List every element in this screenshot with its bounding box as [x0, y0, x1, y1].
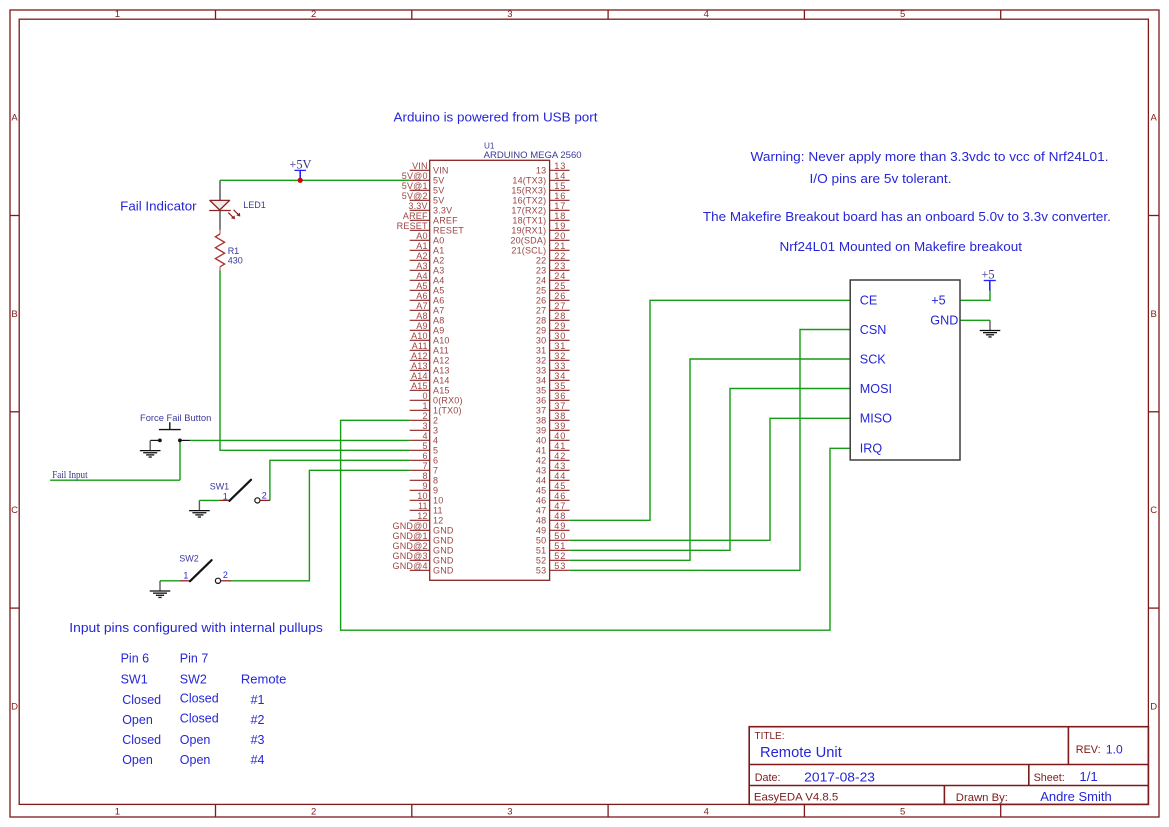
svg-text:20: 20 [554, 231, 566, 241]
U1 pin A9 (left 17) [410, 321, 445, 336]
svg-text:3: 3 [422, 421, 427, 431]
svg-text:The Makefire Breakout board ha: The Makefire Breakout board has an onboa… [703, 210, 1111, 224]
U1 pin 23 (right 11) [536, 261, 570, 276]
svg-text:Input pins configured with int: Input pins configured with internal pull… [69, 621, 322, 635]
svg-text:31: 31 [554, 341, 566, 351]
U1 pin 30 (right 18) [536, 331, 570, 346]
svg-text:+5: +5 [981, 267, 994, 281]
svg-text:A4: A4 [416, 271, 427, 281]
svg-text:25: 25 [536, 286, 546, 296]
svg-text:11: 11 [418, 501, 428, 511]
svg-text:A2: A2 [416, 251, 427, 261]
svg-text:4: 4 [704, 807, 709, 818]
svg-text:Pin 6: Pin 6 [121, 651, 150, 665]
U1 pin 1 (left 25) [410, 401, 462, 416]
svg-text:CE: CE [860, 294, 878, 308]
svg-text:GND: GND [433, 536, 454, 546]
U1 pin 5V@0 (left 2) [402, 171, 445, 186]
svg-text:A15: A15 [433, 386, 450, 396]
U1 pin 50 (right 38) [536, 531, 570, 546]
U1 pin 53 (right 41) [536, 561, 570, 576]
svg-text:32: 32 [554, 351, 566, 361]
U1 pin A4 (left 12) [410, 271, 445, 286]
svg-text:45: 45 [536, 486, 546, 496]
svg-text:Remote: Remote [241, 673, 287, 687]
svg-text:A13: A13 [411, 361, 428, 371]
svg-text:41: 41 [536, 446, 546, 456]
svg-text:B: B [1151, 309, 1157, 320]
svg-text:Fail Indicator: Fail Indicator [120, 200, 196, 214]
U1 pin RESET (left 7) [397, 221, 465, 236]
svg-text:GND: GND [433, 556, 454, 566]
svg-text:48: 48 [536, 516, 546, 526]
svg-text:SCK: SCK [860, 352, 886, 366]
U1 pin GND@3 (left 40) [393, 551, 454, 566]
wire R1 bottom to U1 pin 5 [220, 270, 410, 450]
svg-text:A10: A10 [433, 336, 450, 346]
svg-text:A11: A11 [433, 346, 449, 356]
svg-text:430: 430 [228, 255, 243, 265]
svg-text:36: 36 [554, 391, 566, 401]
U1 pin 36 (right 24) [536, 391, 570, 406]
svg-text:17(RX2): 17(RX2) [511, 206, 546, 216]
svg-text:6: 6 [433, 456, 438, 466]
svg-text:A: A [11, 113, 18, 124]
svg-text:5V: 5V [433, 186, 444, 196]
svg-text:GND: GND [433, 526, 454, 536]
wire SW1 pin2 up to U1 pin 6 [270, 460, 410, 500]
svg-text:53: 53 [536, 566, 546, 576]
svg-text:A13: A13 [433, 366, 450, 376]
U1 pin 0 (left 24) [410, 391, 463, 406]
svg-text:#4: #4 [251, 753, 265, 767]
svg-text:Remote Unit: Remote Unit [760, 745, 842, 761]
svg-text:TITLE:: TITLE: [755, 731, 785, 742]
svg-text:A12: A12 [411, 351, 428, 361]
U1 pin 4 (left 28) [410, 431, 439, 446]
U1 pin 38 (right 26) [536, 411, 570, 426]
svg-text:52: 52 [554, 551, 566, 561]
svg-text:A5: A5 [433, 286, 444, 296]
svg-text:1: 1 [183, 570, 188, 580]
svg-text:28: 28 [554, 311, 566, 321]
U1 pin 47 (right 35) [536, 501, 570, 516]
svg-text:44: 44 [536, 476, 546, 486]
svg-text:IRQ: IRQ [860, 442, 883, 456]
U1 pin 5 (left 29) [410, 441, 439, 456]
svg-text:Date:: Date: [755, 772, 781, 784]
U1 pin 35 (right 23) [536, 381, 570, 396]
svg-text:GND@0: GND@0 [393, 521, 428, 531]
switch SW2 [180, 560, 231, 583]
svg-text:42: 42 [536, 456, 546, 466]
power flag +5V net [289, 157, 311, 180]
ground at SW1 [189, 500, 210, 517]
U1 pin A2 (left 10) [410, 251, 445, 266]
svg-text:35: 35 [554, 381, 566, 391]
svg-text:LED1: LED1 [243, 200, 266, 210]
wire U1 pin 52 to nRF SCK [570, 359, 851, 560]
svg-text:#1: #1 [251, 693, 265, 707]
svg-text:Warning: Never apply more than: Warning: Never apply more than 3.3vdc to… [751, 150, 1109, 164]
svg-text:SW1: SW1 [210, 481, 230, 491]
wire U1 pin 48 to nRF CE [570, 300, 851, 520]
svg-text:32: 32 [536, 356, 546, 366]
U1 pin A6 (left 14) [410, 291, 445, 306]
svg-text:14(TX3): 14(TX3) [512, 176, 546, 186]
svg-text:51: 51 [554, 541, 566, 551]
svg-text:A6: A6 [416, 291, 427, 301]
svg-text:27: 27 [536, 306, 546, 316]
svg-text:26: 26 [536, 296, 546, 306]
wire SW1 pin1 to ground elbow [199, 499, 219, 501]
U1 pin 25 (right 13) [536, 281, 570, 296]
svg-text:A9: A9 [433, 326, 444, 336]
svg-text:C: C [11, 505, 18, 516]
U1 pin 12 (left 36) [410, 511, 444, 526]
svg-text:42: 42 [554, 451, 566, 461]
svg-text:Arduino is powered from USB po: Arduino is powered from USB port [394, 110, 599, 124]
op-amp U1 ARDUINO MEGA 2560 chip body [430, 160, 550, 580]
svg-text:GND: GND [930, 314, 958, 328]
svg-text:AREF: AREF [433, 216, 458, 226]
svg-text:A15: A15 [411, 381, 428, 391]
svg-text:5V@1: 5V@1 [402, 181, 428, 191]
svg-text:6: 6 [422, 451, 427, 461]
wire SW2 pin1 to ground elbow [160, 580, 180, 582]
svg-text:Nrf24L01 Mounted on Makefire b: Nrf24L01 Mounted on Makefire breakout [780, 240, 1023, 254]
svg-text:+5: +5 [931, 294, 945, 308]
svg-text:GND@2: GND@2 [393, 541, 428, 551]
svg-text:ARDUINO MEGA 2560: ARDUINO MEGA 2560 [484, 150, 582, 160]
U1 pin 51 (right 39) [536, 541, 570, 556]
svg-text:31: 31 [536, 346, 546, 356]
svg-text:33: 33 [536, 366, 546, 376]
U1 pin 13 (right 1) [536, 161, 570, 176]
U1 pin GND@0 (left 37) [393, 521, 454, 536]
wire U1 pin 51 to nRF MOSI [570, 389, 851, 551]
wire button junction down to fail input net [179, 440, 181, 480]
svg-text:MOSI: MOSI [860, 382, 892, 396]
U1 pin 5V@1 (left 3) [402, 181, 445, 196]
svg-text:B: B [11, 309, 17, 320]
svg-text:MISO: MISO [860, 412, 892, 426]
svg-text:40: 40 [554, 431, 566, 441]
LED LED1 (fail indicator) [209, 180, 240, 230]
svg-text:GND: GND [433, 566, 454, 576]
svg-text:22: 22 [554, 251, 566, 261]
svg-text:7: 7 [422, 461, 427, 471]
svg-text:14: 14 [554, 171, 566, 181]
U1 pin 32 (right 20) [536, 351, 570, 366]
svg-text:A12: A12 [433, 356, 450, 366]
svg-text:41: 41 [554, 441, 566, 451]
U1 pin 20 (right 8) [510, 231, 569, 246]
svg-text:Andre Smith: Andre Smith [1040, 789, 1112, 804]
svg-text:30: 30 [536, 336, 546, 346]
svg-text:8: 8 [433, 476, 438, 486]
svg-text:4: 4 [422, 431, 427, 441]
ground at SW2 [150, 581, 171, 598]
svg-text:1: 1 [223, 491, 228, 501]
svg-text:A10: A10 [411, 331, 428, 341]
U1 pin 43 (right 31) [536, 461, 570, 476]
svg-text:16(TX2): 16(TX2) [512, 196, 546, 206]
wire nRF +5 pin to +5 flag [960, 290, 990, 300]
svg-text:19: 19 [554, 221, 566, 231]
svg-text:5: 5 [422, 441, 427, 451]
wire +5V rail to U1 5V@0 [220, 179, 410, 181]
svg-text:23: 23 [536, 266, 546, 276]
svg-text:Fail Input: Fail Input [52, 470, 88, 481]
svg-text:5: 5 [433, 446, 438, 456]
svg-text:Pin 7: Pin 7 [180, 651, 209, 665]
svg-text:3.3V: 3.3V [433, 206, 452, 216]
svg-text:50: 50 [536, 536, 546, 546]
svg-text:18(TX1): 18(TX1) [512, 216, 546, 226]
svg-text:2: 2 [433, 416, 438, 426]
junction on +5V rail [298, 178, 303, 183]
svg-text:A7: A7 [416, 301, 427, 311]
svg-text:1(TX0): 1(TX0) [433, 406, 462, 416]
svg-text:A6: A6 [433, 296, 444, 306]
svg-text:A8: A8 [416, 311, 427, 321]
svg-text:39: 39 [554, 421, 566, 431]
svg-text:D: D [11, 702, 18, 713]
U1 pin 48 (right 36) [536, 511, 570, 526]
U1 pin 49 (right 37) [536, 521, 570, 536]
svg-text:34: 34 [554, 371, 566, 381]
svg-text:43: 43 [554, 461, 566, 471]
U1 pin 45 (right 33) [536, 481, 570, 496]
svg-text:Closed: Closed [122, 693, 161, 707]
U1 pin 41 (right 29) [536, 441, 570, 456]
svg-text:34: 34 [536, 376, 546, 386]
U1 pin 8 (left 32) [410, 471, 439, 486]
U1 pin AREF (left 6) [403, 211, 458, 226]
U1 pin A0 (left 8) [410, 231, 445, 246]
push button (force fail) [150, 422, 190, 442]
svg-text:A11: A11 [412, 341, 428, 351]
svg-text:49: 49 [536, 526, 546, 536]
wire nRF GND pin to ground [960, 319, 990, 321]
svg-text:5V: 5V [433, 176, 444, 186]
svg-text:Open: Open [180, 753, 211, 767]
svg-text:9: 9 [433, 486, 438, 496]
U1 pin 44 (right 32) [536, 471, 570, 486]
svg-text:3: 3 [507, 807, 512, 818]
svg-text:49: 49 [554, 521, 566, 531]
U1 pin GND@1 (left 38) [393, 531, 454, 546]
svg-text:GND@4: GND@4 [393, 561, 428, 571]
svg-text:EasyEDA V4.8.5: EasyEDA V4.8.5 [754, 792, 838, 804]
svg-text:5V@2: 5V@2 [402, 191, 428, 201]
svg-text:11: 11 [433, 506, 443, 516]
svg-text:36: 36 [536, 396, 546, 406]
U1 pin 17 (right 5) [511, 201, 569, 216]
U1 pin 28 (right 16) [536, 311, 570, 326]
U1 pin VIN (left 1) [410, 161, 449, 176]
svg-text:REV:: REV: [1076, 744, 1101, 756]
svg-text:39: 39 [536, 426, 546, 436]
svg-text:Open: Open [122, 713, 153, 727]
svg-text:A3: A3 [433, 266, 444, 276]
svg-text:52: 52 [536, 556, 546, 566]
U1 pin 19 (right 7) [511, 221, 569, 236]
ground at nRF GND [980, 320, 1001, 337]
svg-text:CSN: CSN [860, 323, 887, 337]
svg-text:Open: Open [122, 753, 153, 767]
svg-text:0(RX0): 0(RX0) [433, 396, 463, 406]
svg-text:28: 28 [536, 316, 546, 326]
svg-text:5V@0: 5V@0 [402, 171, 428, 181]
svg-text:8: 8 [422, 471, 427, 481]
svg-text:4: 4 [433, 436, 438, 446]
svg-text:A: A [1151, 113, 1158, 124]
svg-text:2: 2 [422, 411, 427, 421]
svg-text:35: 35 [536, 386, 546, 396]
svg-text:3.3V: 3.3V [408, 201, 427, 211]
U1 pin A5 (left 13) [410, 281, 445, 296]
U1 pin 16 (right 4) [512, 191, 569, 206]
svg-text:A7: A7 [433, 306, 444, 316]
svg-text:3: 3 [433, 426, 438, 436]
U1 pin 42 (right 30) [536, 451, 570, 466]
ground at force fail button [140, 440, 161, 457]
svg-text:5V: 5V [433, 196, 444, 206]
svg-text:30: 30 [554, 331, 566, 341]
U1 pin 2 (left 26) [410, 411, 439, 426]
svg-text:43: 43 [536, 466, 546, 476]
svg-text:C: C [1150, 505, 1157, 516]
wire U1 pin 50 to nRF MISO [570, 418, 851, 540]
U1 pin 40 (right 28) [536, 431, 570, 446]
svg-text:22: 22 [536, 256, 546, 266]
svg-text:VIN: VIN [412, 161, 428, 171]
U1 pin 3.3V (left 5) [408, 201, 452, 216]
U1 pin 39 (right 27) [536, 421, 570, 436]
svg-text:13: 13 [554, 161, 566, 171]
svg-text:A8: A8 [433, 316, 444, 326]
svg-text:A9: A9 [416, 321, 427, 331]
U1 pin 10 (left 34) [410, 491, 444, 506]
svg-text:50: 50 [554, 531, 566, 541]
svg-text:38: 38 [554, 411, 566, 421]
svg-text:19(RX1): 19(RX1) [511, 226, 546, 236]
U1 pin A10 (left 18) [410, 331, 450, 346]
wire U1 pin 53 to nRF CSN [570, 330, 851, 571]
svg-text:1.0: 1.0 [1106, 742, 1123, 756]
svg-text:3: 3 [507, 9, 512, 20]
U1 pin 21 (right 9) [511, 241, 569, 256]
wire SW2 pin2 to U1 pin 7 [230, 470, 410, 581]
wire fail input net [50, 479, 180, 481]
U1 pin 46 (right 34) [536, 491, 570, 506]
svg-text:1: 1 [115, 9, 120, 20]
svg-text:23: 23 [554, 261, 566, 271]
svg-text:SW1: SW1 [121, 673, 148, 687]
svg-text:A14: A14 [433, 376, 450, 386]
svg-text:29: 29 [554, 321, 566, 331]
svg-text:0: 0 [422, 391, 427, 401]
svg-text:5: 5 [900, 807, 905, 818]
U1 pin 24 (right 12) [536, 271, 570, 286]
U1 pin A11 (left 19) [410, 341, 449, 356]
title block [749, 727, 1148, 805]
svg-text:Closed: Closed [122, 733, 161, 747]
U1 pin A3 (left 11) [410, 261, 445, 276]
svg-text:SW2: SW2 [179, 554, 199, 564]
svg-text:A14: A14 [411, 371, 428, 381]
svg-text:21: 21 [554, 241, 566, 251]
U1 pin A8 (left 16) [410, 311, 445, 326]
U1 pin A13 (left 21) [410, 361, 450, 376]
svg-text:13: 13 [536, 166, 546, 176]
svg-text:GND@3: GND@3 [393, 551, 428, 561]
svg-text:GND: GND [433, 546, 454, 556]
svg-text:53: 53 [554, 561, 566, 571]
svg-text:29: 29 [536, 326, 546, 336]
svg-text:17: 17 [554, 201, 566, 211]
svg-text:15: 15 [554, 181, 566, 191]
U1 pin 9 (left 33) [410, 481, 439, 496]
nRF24L01 breakout module block [850, 280, 960, 460]
svg-text:15(RX3): 15(RX3) [511, 186, 546, 196]
svg-text:SW2: SW2 [180, 673, 207, 687]
U1 pin 37 (right 25) [536, 401, 570, 416]
svg-text:1: 1 [422, 401, 427, 411]
U1 pin 26 (right 14) [536, 291, 570, 306]
svg-text:9: 9 [422, 481, 427, 491]
svg-text:38: 38 [536, 416, 546, 426]
svg-text:48: 48 [554, 511, 566, 521]
svg-text:7: 7 [433, 466, 438, 476]
svg-text:D: D [1150, 702, 1157, 713]
U1 pin 11 (left 35) [410, 501, 443, 516]
svg-text:37: 37 [554, 401, 566, 411]
svg-text:12: 12 [417, 511, 427, 521]
svg-text:A2: A2 [433, 256, 444, 266]
power flag +5 at nRF [981, 267, 995, 290]
svg-text:25: 25 [554, 281, 566, 291]
svg-text:VIN: VIN [433, 166, 449, 176]
resistor R1 430 [215, 230, 224, 271]
svg-text:Open: Open [180, 733, 211, 747]
U1 pin 31 (right 19) [536, 341, 570, 356]
svg-text:A4: A4 [433, 276, 444, 286]
svg-text:2017-08-23: 2017-08-23 [804, 770, 875, 784]
svg-text:10: 10 [417, 491, 427, 501]
svg-text:44: 44 [554, 471, 566, 481]
svg-text:2: 2 [262, 491, 267, 501]
svg-text:GND@1: GND@1 [393, 531, 428, 541]
wire U1 pin 2 to IRQ (long path) [341, 420, 851, 630]
U1 pin 34 (right 22) [536, 371, 570, 386]
svg-text:+5V: +5V [289, 157, 311, 171]
U1 pin GND@4 (left 41) [393, 561, 454, 576]
U1 pin A14 (left 22) [410, 371, 450, 386]
svg-text:10: 10 [433, 496, 443, 506]
svg-text:37: 37 [536, 406, 546, 416]
svg-text:#3: #3 [251, 733, 265, 747]
U1 pin 52 (right 40) [536, 551, 570, 566]
svg-text:2: 2 [311, 807, 316, 818]
svg-text:46: 46 [536, 496, 546, 506]
svg-text:2: 2 [223, 570, 228, 580]
U1 pin GND@2 (left 39) [393, 541, 454, 556]
U1 pin A15 (left 23) [410, 381, 450, 396]
svg-text:51: 51 [536, 546, 546, 556]
